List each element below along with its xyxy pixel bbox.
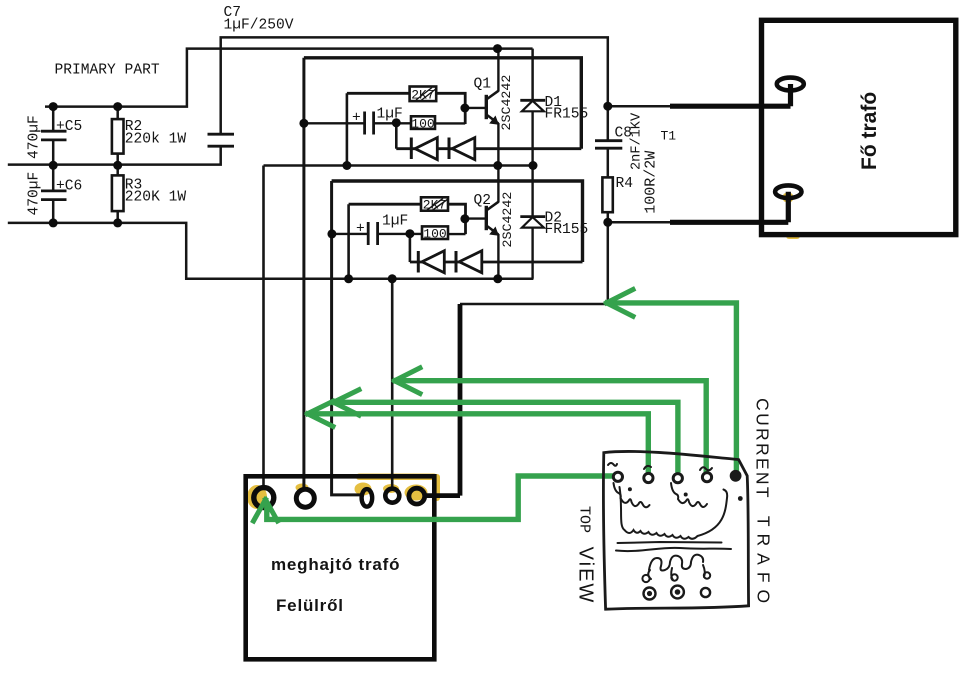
- svg-text:1µF: 1µF: [377, 107, 403, 123]
- svg-text:Q1: Q1: [474, 77, 492, 93]
- svg-text:2SC4242: 2SC4242: [499, 75, 514, 131]
- svg-text:Q2: Q2: [474, 193, 492, 209]
- svg-text:TRAFO: TRAFO: [754, 516, 774, 610]
- svg-text:PRIMARY PART: PRIMARY PART: [55, 63, 160, 79]
- svg-text:Fő trafó: Fő trafó: [858, 92, 881, 170]
- svg-text:Felülről: Felülről: [276, 596, 344, 615]
- svg-text:R4: R4: [616, 176, 634, 192]
- svg-text:+: +: [356, 222, 365, 238]
- svg-text:CURRENT: CURRENT: [753, 398, 773, 500]
- svg-text:470µF: 470µF: [27, 172, 43, 216]
- svg-text:220k 1W: 220k 1W: [125, 132, 187, 148]
- svg-text:TOP: TOP: [576, 506, 593, 533]
- svg-text:ViEW: ViEW: [575, 547, 597, 605]
- svg-text:100R/2W: 100R/2W: [643, 151, 660, 214]
- svg-text:FR155: FR155: [545, 107, 589, 123]
- svg-text:+C5: +C5: [56, 119, 82, 135]
- svg-text:100: 100: [423, 227, 446, 242]
- svg-text:1µF: 1µF: [382, 214, 408, 230]
- svg-text:2K7: 2K7: [423, 198, 446, 213]
- svg-text:+C6: +C6: [56, 179, 82, 195]
- svg-text:meghajtó trafó: meghajtó trafó: [271, 555, 400, 574]
- svg-text:2SC4242: 2SC4242: [500, 192, 515, 248]
- svg-text:470µF: 470µF: [27, 115, 43, 159]
- svg-text:FR155: FR155: [545, 222, 589, 238]
- svg-text:2K7: 2K7: [411, 87, 434, 102]
- svg-text:+: +: [352, 111, 361, 127]
- svg-text:100: 100: [411, 116, 434, 131]
- svg-text:T1: T1: [661, 129, 677, 144]
- svg-text:1µF/250V: 1µF/250V: [224, 18, 294, 34]
- svg-text:220K 1W: 220K 1W: [125, 190, 187, 206]
